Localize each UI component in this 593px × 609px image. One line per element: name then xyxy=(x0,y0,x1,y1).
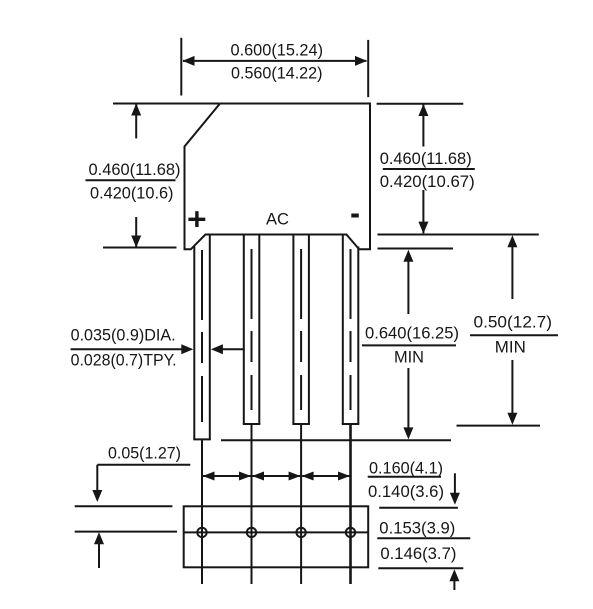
bottom view top extension line left xyxy=(75,505,173,507)
arrowhead pitch 3 left xyxy=(302,472,314,481)
plus terminal mark xyxy=(188,211,205,227)
package body outline xyxy=(185,104,371,250)
mounting hole 2 xyxy=(247,528,256,537)
0.05 leader line xyxy=(97,464,190,466)
lead diameter opposing arrow tail xyxy=(222,348,243,350)
bottom view top edge extension bar xyxy=(379,507,458,509)
arrowhead lead dia left xyxy=(211,344,223,354)
svg-text:0.560(14.22): 0.560(14.22) xyxy=(231,64,323,83)
left fraction bar 0.460/0.420 xyxy=(86,179,176,181)
shoulder extension line right xyxy=(378,234,539,236)
bottom view outline xyxy=(184,506,369,567)
body bottom extension line right xyxy=(378,248,454,250)
lead diameter leader line with arrow xyxy=(71,348,182,350)
top dimension extension line right xyxy=(367,40,369,97)
arrowhead left dim up xyxy=(131,104,141,116)
minus terminal mark xyxy=(351,214,359,218)
svg-text:MIN: MIN xyxy=(394,347,424,366)
bottom view bottom edge extension bar xyxy=(378,567,463,569)
svg-text:0.05(1.27): 0.05(1.27) xyxy=(108,443,181,462)
pitch dimension line 1 xyxy=(203,475,251,477)
arrowhead lead dia right xyxy=(181,344,193,354)
mounting hole 3 xyxy=(296,528,305,537)
svg-text:0.140(3.6): 0.140(3.6) xyxy=(368,482,444,501)
left dimension arrow tails xyxy=(135,104,137,138)
right fraction bar 0.460/0.420 xyxy=(383,168,475,170)
lead 4 xyxy=(342,235,360,425)
top dimension line xyxy=(183,60,367,62)
0.640 MIN dimension line xyxy=(407,261,409,314)
0.640 fraction bar xyxy=(362,344,456,346)
0.160 fraction bar xyxy=(368,476,441,478)
hole centerline xyxy=(184,531,369,533)
arrowhead pitch 2 left xyxy=(252,472,264,481)
pitch dimension line 2 xyxy=(253,475,301,477)
0.140 arrow tail xyxy=(454,473,456,494)
svg-text:0.153(3.9): 0.153(3.9) xyxy=(379,519,455,538)
left dimension bottom extension line xyxy=(103,247,177,249)
0.05 down arrow tail xyxy=(96,465,98,491)
arrowhead top dim left xyxy=(183,56,195,66)
hole centerline extension line left xyxy=(75,531,177,533)
svg-text:0.460(11.68): 0.460(11.68) xyxy=(89,160,181,179)
lead 4 centerline extension xyxy=(349,424,352,584)
arrowhead 0.146 up xyxy=(449,569,459,581)
0.50 fraction bar xyxy=(470,334,558,336)
0.50 MIN dimension line xyxy=(511,246,513,299)
svg-text:0.50(12.7): 0.50(12.7) xyxy=(474,312,553,331)
long lead tip extension line xyxy=(221,439,451,441)
svg-text:MIN: MIN xyxy=(495,337,526,356)
svg-text:0.600(15.24): 0.600(15.24) xyxy=(231,40,324,59)
lead 1 xyxy=(193,235,211,440)
arrowhead top dim right xyxy=(355,56,367,66)
arrowhead 0.50 up xyxy=(507,235,517,247)
lead 3 xyxy=(292,235,310,425)
svg-text:0.160(4.1): 0.160(4.1) xyxy=(369,459,443,478)
0.153 fraction bar xyxy=(377,537,470,539)
arrowhead pitch 1 right xyxy=(239,472,251,481)
top dimension extension line left xyxy=(180,38,182,96)
arrowhead pitch 2 right xyxy=(289,472,301,481)
svg-text:0.028(0.7)TPY.: 0.028(0.7)TPY. xyxy=(71,350,177,369)
svg-text:0.420(10.67): 0.420(10.67) xyxy=(380,172,475,191)
lead 1 centerline extension xyxy=(201,439,203,584)
left dimension top extension line xyxy=(113,103,219,105)
svg-text:0.035(0.9)DIA.: 0.035(0.9)DIA. xyxy=(71,326,176,345)
arrowhead 0.05 up xyxy=(94,532,104,544)
arrowhead left dim down xyxy=(131,236,141,248)
arrowhead right dim down xyxy=(418,222,428,234)
svg-text:0.146(3.7): 0.146(3.7) xyxy=(380,544,456,563)
svg-text:AC: AC xyxy=(266,210,289,229)
0.146 arrow tail xyxy=(453,580,455,590)
arrowhead pitch 1 left xyxy=(203,472,215,481)
pitch dimension line 3 xyxy=(302,475,349,477)
svg-text:0.420(10.6): 0.420(10.6) xyxy=(90,183,174,202)
arrowhead right dim up xyxy=(418,104,428,116)
short lead tip extension line xyxy=(457,425,541,427)
right dimension arrow tails xyxy=(422,104,424,146)
right dimension top extension line xyxy=(377,103,464,105)
arrowhead 0.140 down xyxy=(450,493,460,505)
svg-text:0.460(11.68): 0.460(11.68) xyxy=(380,149,472,168)
arrowhead 0.50 down xyxy=(507,413,517,425)
svg-text:0.640(16.25): 0.640(16.25) xyxy=(365,323,459,342)
lead 2 xyxy=(243,235,260,425)
mounting hole 4 xyxy=(346,528,355,537)
arrowhead 0.05 down xyxy=(92,490,102,502)
arrowhead 0.640 down xyxy=(403,427,413,439)
0.05 up arrow tail xyxy=(98,544,100,568)
mounting hole 1 xyxy=(197,528,206,537)
lead 3 centerline extension xyxy=(300,424,302,584)
arrowhead 0.640 up xyxy=(403,250,413,262)
arrowhead pitch 3 right xyxy=(338,472,350,481)
lead 2 centerline extension xyxy=(251,424,253,584)
